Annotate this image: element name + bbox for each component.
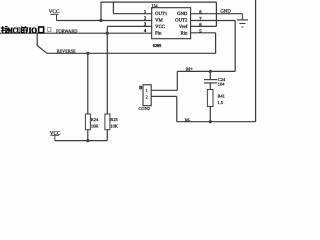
wire pin7 OUT2 — [191, 20, 236, 22]
wire pin8 GND — [191, 13, 243, 15]
connector CON2 body — [143, 85, 151, 106]
svg-text:Vref: Vref — [179, 24, 188, 30]
svg-text:6289: 6289 — [153, 43, 162, 48]
wire OUT2 drop to M+ — [234, 21, 236, 72]
wire VCC pullup column — [106, 26, 108, 114]
junction REVERSE-R24 node — [86, 52, 89, 55]
wire FORWARD net — [0, 32, 152, 34]
wire pin3 VCC stub — [107, 25, 151, 27]
wire pin6 Vref stub — [191, 25, 217, 27]
wire CON2 pin2 — [151, 95, 177, 97]
wire M- rail — [177, 121, 256, 123]
svg-text:M-: M- — [185, 117, 191, 123]
svg-text:FORWARD: FORWARD — [56, 28, 78, 33]
svg-text:104: 104 — [218, 82, 225, 87]
capacitor C24 — [204, 80, 217, 83]
wire C24 to R41 lead — [209, 83, 211, 89]
svg-text:R24: R24 — [91, 117, 99, 122]
wire REVERSE net — [47, 52, 216, 54]
wire R41 bottom lead — [209, 107, 211, 122]
wire VM riser — [100, 2, 102, 21]
junction bottom rail R24 node — [86, 139, 89, 142]
wire M+ rail — [177, 70, 235, 72]
svg-text:R25: R25 — [110, 117, 118, 122]
junction M- snubber node — [209, 120, 212, 123]
junction M+ snubber node — [209, 70, 212, 73]
svg-text:1.5: 1.5 — [218, 100, 224, 105]
wire OUT1 drop — [112, 2, 114, 14]
svg-text:M+: M+ — [186, 66, 193, 72]
svg-text:OUT2: OUT2 — [175, 18, 188, 24]
svg-text:REVERSE: REVERSE — [57, 48, 76, 53]
svg-text:CON2: CON2 — [139, 106, 150, 111]
wire pin5 Rin stub — [191, 32, 216, 34]
wire right rail OUT1 to M- — [255, 0, 257, 122]
wire Rin loop — [215, 33, 217, 54]
svg-text:IO: IO — [29, 26, 37, 35]
annotation small box glyph — [48, 28, 51, 32]
wire top rail OUT1 net — [101, 1, 216, 3]
wire pin1 stub — [113, 13, 151, 15]
svg-text:10K: 10K — [91, 124, 99, 129]
annotation 的 glyph — [21, 26, 27, 33]
wire C24 top lead — [209, 71, 211, 79]
svg-text:B: B — [139, 85, 142, 90]
svg-text:GND: GND — [220, 8, 231, 14]
power VCC symbol top-left — [49, 9, 60, 20]
resistor R25 — [105, 114, 110, 130]
svg-text:VM: VM — [155, 18, 163, 24]
resistor R24 — [85, 114, 90, 130]
wire CON2 pin2 riser to M- — [176, 96, 178, 121]
power VCC symbol bottom-left — [50, 131, 61, 141]
wire R24 bottom lead — [87, 130, 89, 141]
resistor R41 — [207, 90, 213, 107]
wire R25 bottom lead — [106, 130, 108, 141]
junction VM-VCC node — [99, 19, 102, 22]
wire Vref riser — [215, 2, 217, 26]
svg-text:GND: GND — [177, 11, 188, 17]
svg-text:U4: U4 — [152, 3, 159, 9]
wire R24 column — [87, 53, 89, 114]
svg-text:Fin: Fin — [155, 31, 162, 37]
wire bottom VCC rail — [55, 140, 108, 142]
wire REVERSE branch drop — [37, 33, 47, 53]
svg-text:OUT1: OUT1 — [155, 11, 168, 17]
svg-text:R41: R41 — [218, 94, 225, 99]
annotation 口 glyph — [39, 27, 44, 33]
annotation 接 glyph — [1, 26, 8, 33]
wire CON2 pin1 — [151, 89, 177, 91]
wire VCC to VM pin2 — [57, 20, 152, 22]
svg-text:MCU: MCU — [8, 26, 21, 35]
svg-text:Rin: Rin — [180, 31, 188, 37]
svg-text:10K: 10K — [110, 124, 118, 129]
IC U4 motor driver body — [152, 8, 191, 39]
ground symbol GND net — [237, 14, 248, 27]
wire M+ drop to CON2 pin1 — [176, 71, 178, 90]
junction FORWARD-R25 node — [106, 32, 109, 35]
svg-text:VCC: VCC — [155, 24, 165, 30]
